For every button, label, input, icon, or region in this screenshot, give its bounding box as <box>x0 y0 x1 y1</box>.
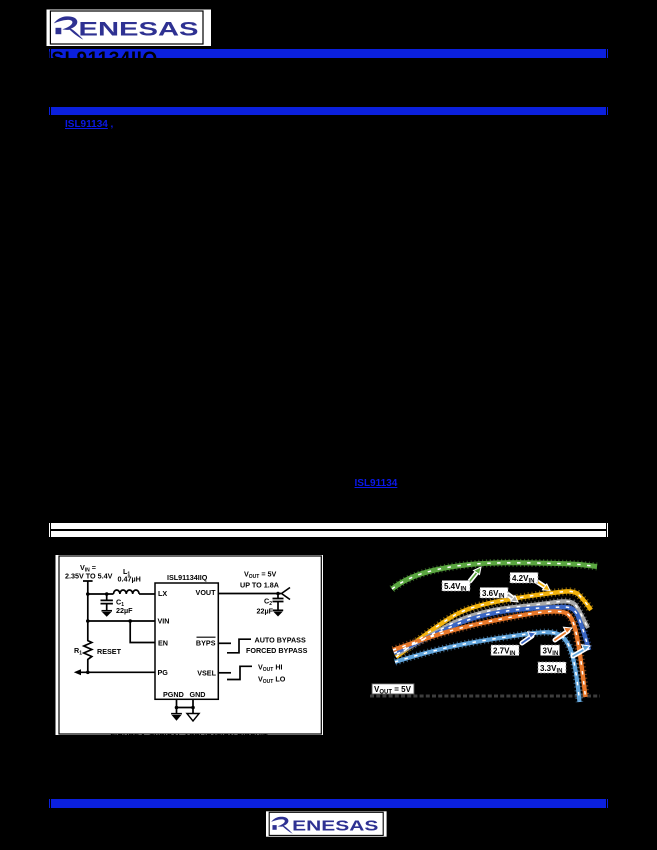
inductor L1 <box>114 590 140 594</box>
junction C1 <box>105 592 109 596</box>
arrow to green curve <box>470 567 481 581</box>
svg-text:0.47µH: 0.47µH <box>118 575 141 584</box>
resistor R1 <box>84 621 92 672</box>
svg-text:22µF: 22µF <box>257 607 274 616</box>
white double rule <box>49 523 50 538</box>
arrow from 2.7VIN label <box>522 632 536 643</box>
svg-text:2.35V TO 5.4V: 2.35V TO 5.4V <box>65 572 113 581</box>
wire GND <box>192 699 194 707</box>
arrow to gray curve <box>506 593 518 602</box>
wire BYPS stub <box>218 642 231 644</box>
junction PGND <box>175 706 179 710</box>
black title silhouette overlapping bar bottom <box>46 49 158 71</box>
PG arrow head <box>74 669 81 675</box>
svg-text:ENESAS: ENESAS <box>292 819 379 835</box>
ground PGND triangle <box>172 715 182 721</box>
curve 3.3VIN light blue <box>395 632 580 702</box>
arrow to yellow curve <box>536 581 550 591</box>
svg-text:VIN: VIN <box>158 617 170 626</box>
svg-text:VSEL: VSEL <box>197 669 216 678</box>
junction input rail <box>86 592 90 596</box>
junction VIN rail <box>86 619 90 623</box>
svg-text:BYPS: BYPS <box>196 639 216 648</box>
svg-text:AUTO BYPASS: AUTO BYPASS <box>255 636 306 645</box>
svg-text:PG: PG <box>158 668 169 677</box>
junction PG rail <box>86 671 90 675</box>
curve 2.7VIN orange <box>393 611 586 697</box>
ground PGND stem <box>171 708 182 714</box>
wire VIN vertical <box>87 594 89 621</box>
top Renesas logo <box>46 9 212 47</box>
wire gnd tie <box>177 707 194 709</box>
arrow from 3.3VIN label <box>573 645 590 656</box>
svg-text:PGND: PGND <box>163 690 184 699</box>
curve 3.6VIN gray <box>397 601 588 654</box>
wire VSEL stub <box>218 672 231 674</box>
curve 4.2VIN yellow <box>396 591 591 657</box>
svg-text:22µF: 22µF <box>116 606 133 615</box>
label 5.4VIN <box>442 581 470 593</box>
link 2 <box>355 478 398 489</box>
wire VOUT rail <box>218 593 281 595</box>
label 3.6VIN <box>480 588 508 600</box>
link 1 <box>65 119 108 130</box>
svg-text:EN: EN <box>158 639 168 648</box>
ground GND stem <box>192 708 194 714</box>
switch vsel <box>227 666 252 679</box>
curve fuzz texture <box>392 563 597 702</box>
bottom Renesas logo <box>266 808 388 840</box>
ground C1 <box>102 610 113 612</box>
ground C1 triangle <box>102 612 111 617</box>
bottom blue bar <box>49 799 50 807</box>
ground C2 <box>273 609 283 611</box>
ground C2 triangle <box>273 612 283 617</box>
svg-text:RESET: RESET <box>97 647 122 656</box>
svg-text:FIGURE 1. TYPICAL APPLICATION: FIGURE 1. TYPICAL APPLICATION CIRCUIT <box>110 732 268 736</box>
label 3VIN <box>541 645 560 657</box>
svg-text:FORCED BYPASS: FORCED BYPASS <box>246 646 308 655</box>
white dash overlays <box>392 563 597 702</box>
wire EN <box>130 621 155 643</box>
square dot of R <box>56 28 62 34</box>
svg-text:GND: GND <box>190 690 206 699</box>
junction C2 <box>276 592 280 596</box>
wire input rail to inductor <box>88 593 114 595</box>
label 2.7VIN <box>491 645 519 657</box>
blue bar 2 <box>49 107 50 116</box>
svg-text:UP TO 1.8A: UP TO 1.8A <box>240 581 279 590</box>
curve 3VIN royal blue <box>394 607 589 653</box>
junction GND <box>191 706 195 710</box>
output connector <box>282 588 291 600</box>
label 4.2VIN <box>510 573 538 585</box>
svg-text:LX: LX <box>158 589 167 598</box>
arrow from 3VIN label <box>555 627 572 640</box>
ground GND triangle open <box>187 714 199 722</box>
wire PGND <box>176 699 178 707</box>
wire PG rail <box>79 671 155 673</box>
capacitor C2 <box>273 594 284 611</box>
x-axis tick label row <box>370 695 600 698</box>
junction EN tap <box>128 619 132 623</box>
FIGURE 1 : circuit <box>55 554 324 736</box>
capacitor C1 <box>101 594 113 611</box>
label VOUT = 5V <box>372 684 414 696</box>
switch bypass <box>227 639 251 653</box>
wire inductor to LX <box>139 593 155 595</box>
IC box U1 <box>155 583 218 699</box>
blue bar 1 <box>49 49 50 58</box>
label 3.3VIN <box>538 662 566 674</box>
svg-text:ISL91134IIQ: ISL91134IIQ <box>167 573 208 582</box>
curve 5.4VIN green <box>392 563 597 589</box>
wire VIN rail <box>88 620 155 622</box>
R swoosh <box>54 16 84 39</box>
svg-text:ENESAS: ENESAS <box>79 18 199 40</box>
svg-text:VOUT: VOUT <box>196 588 217 597</box>
FIGURE 2 : efficiency chart <box>362 552 605 707</box>
input terminal <box>83 581 93 594</box>
